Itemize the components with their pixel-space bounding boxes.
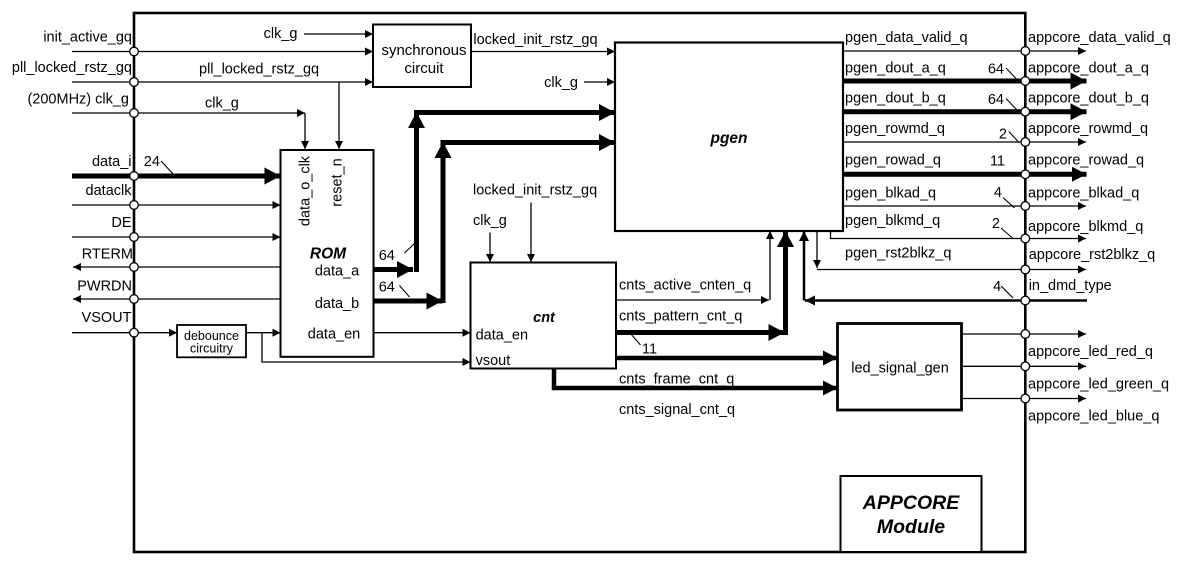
svg-text:circuitry: circuitry	[190, 342, 234, 356]
svg-text:pgen: pgen	[709, 130, 747, 147]
svg-text:locked_init_rstz_gq: locked_init_rstz_gq	[473, 32, 597, 48]
svg-text:clk_g: clk_g	[264, 26, 298, 42]
svg-text:appcore_led_green_q: appcore_led_green_q	[1028, 376, 1169, 392]
svg-text:cnt: cnt	[533, 310, 556, 326]
svg-text:4: 4	[994, 185, 1002, 201]
svg-text:(200MHz) clk_g: (200MHz) clk_g	[27, 92, 129, 108]
svg-text:vsout: vsout	[476, 353, 511, 369]
svg-text:init_active_gq: init_active_gq	[43, 30, 132, 46]
svg-text:2: 2	[999, 127, 1007, 143]
svg-text:VSOUT: VSOUT	[82, 310, 132, 326]
svg-text:pll_locked_rstz_gq: pll_locked_rstz_gq	[199, 62, 319, 78]
svg-text:in_dmd_type: in_dmd_type	[1029, 278, 1112, 294]
svg-text:clk_g: clk_g	[473, 213, 507, 229]
svg-text:appcore_dout_a_q: appcore_dout_a_q	[1028, 60, 1149, 76]
svg-text:pgen_rst2blkz_q: pgen_rst2blkz_q	[845, 246, 951, 262]
svg-text:data_en: data_en	[308, 327, 360, 343]
svg-text:appcore_rowmd_q: appcore_rowmd_q	[1028, 121, 1148, 137]
svg-text:dataclk: dataclk	[86, 183, 133, 199]
svg-text:11: 11	[990, 154, 1005, 170]
svg-text:64: 64	[988, 92, 1004, 108]
svg-text:4: 4	[993, 279, 1001, 295]
svg-text:data_b: data_b	[315, 296, 359, 312]
svg-text:appcore_data_valid_q: appcore_data_valid_q	[1028, 30, 1171, 46]
svg-text:locked_init_rstz_gq: locked_init_rstz_gq	[473, 183, 597, 199]
svg-text:11: 11	[642, 342, 657, 358]
svg-text:appcore_led_blue_q: appcore_led_blue_q	[1028, 409, 1159, 425]
svg-text:pgen_dout_b_q: pgen_dout_b_q	[845, 91, 946, 107]
svg-text:PWRDN: PWRDN	[77, 279, 132, 295]
svg-text:appcore_led_red_q: appcore_led_red_q	[1028, 344, 1153, 360]
svg-text:cnts_frame_cnt_q: cnts_frame_cnt_q	[619, 372, 734, 388]
svg-text:pll_locked_rstz_gq: pll_locked_rstz_gq	[12, 60, 132, 76]
svg-text:DE: DE	[111, 215, 131, 231]
svg-text:appcore_blkad_q: appcore_blkad_q	[1028, 185, 1139, 201]
svg-text:clk_g: clk_g	[544, 75, 578, 91]
svg-text:64: 64	[988, 61, 1004, 77]
svg-text:appcore_rowad_q: appcore_rowad_q	[1028, 153, 1144, 169]
svg-text:clk_g: clk_g	[205, 96, 239, 112]
svg-text:24: 24	[144, 154, 160, 170]
svg-text:64: 64	[379, 280, 395, 296]
svg-text:ROM: ROM	[310, 246, 347, 263]
svg-text:led_signal_gen: led_signal_gen	[851, 361, 949, 377]
svg-text:pgen_dout_a_q: pgen_dout_a_q	[845, 60, 946, 76]
svg-text:pgen_blkad_q: pgen_blkad_q	[845, 185, 936, 201]
svg-text:pgen_blkmd_q: pgen_blkmd_q	[845, 213, 940, 229]
svg-text:data_a: data_a	[315, 264, 360, 280]
svg-text:appcore_rst2blkz_q: appcore_rst2blkz_q	[1029, 247, 1156, 263]
svg-text:cnts_signal_cnt_q: cnts_signal_cnt_q	[619, 402, 735, 418]
svg-text:appcore_blkmd_q: appcore_blkmd_q	[1028, 219, 1143, 235]
svg-text:pgen_data_valid_q: pgen_data_valid_q	[845, 30, 968, 46]
svg-text:cnts_active_cnten_q: cnts_active_cnten_q	[619, 278, 751, 294]
svg-text:APPCORE: APPCORE	[862, 492, 960, 514]
svg-text:64: 64	[379, 248, 395, 264]
svg-text:cnts_pattern_cnt_q: cnts_pattern_cnt_q	[619, 309, 742, 325]
svg-text:Module: Module	[877, 516, 945, 538]
svg-text:appcore_dout_b_q: appcore_dout_b_q	[1028, 91, 1149, 107]
svg-text:synchronous: synchronous	[381, 42, 466, 59]
svg-text:2: 2	[992, 216, 1000, 232]
svg-text:circuit: circuit	[404, 60, 444, 77]
svg-text:data_o_clk: data_o_clk	[298, 155, 314, 226]
svg-text:reset_n: reset_n	[330, 158, 346, 206]
svg-text:RTERM: RTERM	[82, 247, 133, 263]
svg-text:data_en: data_en	[476, 328, 528, 344]
svg-text:pgen_rowmd_q: pgen_rowmd_q	[845, 121, 945, 137]
svg-text:pgen_rowad_q: pgen_rowad_q	[845, 153, 941, 169]
svg-text:data_i: data_i	[92, 154, 132, 170]
